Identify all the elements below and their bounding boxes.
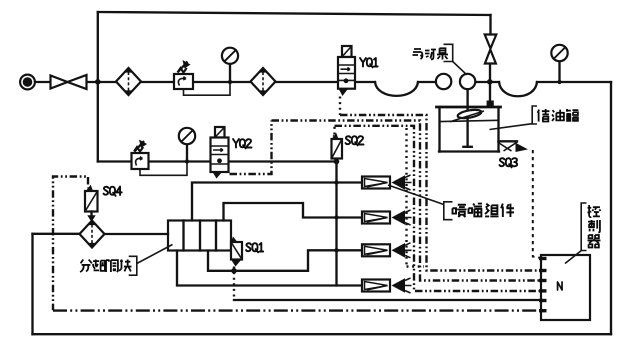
gauge G1 [222,48,238,82]
wire: feed to nozzle 2 [224,203,363,221]
wire: feed to nozzle 3 [208,250,362,270]
wire: feed to nozzle 4 [177,251,362,286]
regulator R1 [174,60,193,89]
label SQ4 [104,187,122,196]
node: junction row2 / feed column [334,159,340,165]
wire: hose loop 1 [375,82,418,96]
regulator R2 [132,140,149,170]
wire: nozzle feed column [335,162,337,286]
wire: pump suction pipe [466,89,468,147]
pilot line: SQ4 drop and bottom bus to controller [53,177,88,311]
wire: regulator R2 feedback [140,164,187,176]
label 储油罐 (oil tank) with bracket and leader [490,106,579,130]
node: junction row1 / gauge G3 [557,80,561,84]
wire: check-valve drop lower segment into tank [489,64,491,102]
node: junction SQ1 / nozzle3 loop [231,268,237,274]
pilot bus A: YQ1 to controller [340,115,540,271]
nozzle unit 1 [362,175,412,190]
wire: top bypass loop horizontal [98,12,491,15]
solenoid valve YQ2 [211,127,229,179]
wire: hose loop 2 [499,82,537,96]
label 控制器 (controller) vertical with bracket and leader [565,203,600,264]
nozzle unit 3 [362,243,412,258]
wire: regulator R1 feedback [184,84,231,95]
controller box [539,255,590,320]
limit valve SQ4 [85,185,98,222]
node: junction column / nozzle2 feed [334,215,338,219]
pump circle 2 [460,74,475,89]
pilot line: YQ1 drop [339,97,341,116]
node: junction row1 / left bypass [95,79,101,85]
inlet source port [20,75,35,90]
pilot line: YQ2 riser [230,121,272,175]
wire: main air line row 1 segments [35,81,51,83]
node: junction column / nozzle3 feed [334,248,338,252]
distribution valve block [168,221,231,251]
filter F1 [116,68,141,95]
pipe end plug into tank top [487,101,494,107]
node: junction row1 / check-valve line [487,79,493,85]
pilot line: SQ1 drop [233,267,235,301]
nozzle unit 2 [362,210,412,225]
wire: outer return bottom border [33,333,612,335]
gauge G2 [179,128,195,162]
pilot column D (inner spare) [407,128,425,267]
check valve (double cone) [485,35,497,64]
wire: check-valve drop upper segment [489,15,491,35]
label SQ2 [346,136,364,145]
solenoid valve YQ1 [338,46,355,96]
label 分配阀块 (distribution block) with bracket and leader [80,245,172,276]
label YQ1 [360,58,378,67]
filter F2 [251,68,276,95]
wire: feed to nozzle 1 [192,183,362,221]
label YQ2 [233,139,252,148]
wire: left bypass vertical down to row 2 [97,12,99,162]
pilot line: SQ3 drop to controller [533,150,540,258]
limit valve SQ1 [231,237,243,267]
wire: outer return left border [31,234,33,334]
label N (controller) [558,282,562,290]
filter F3 (lower) [80,221,105,248]
wire: outer return right border [610,82,612,334]
label 气动泵 (pneumatic pump) with bracket and leader [413,44,467,75]
oil tank [437,107,501,152]
label 喷嘴组件 (nozzle assembly) with bracket and leader [388,185,514,220]
pilot line: SQ2 riser [333,126,335,135]
node: junction row1 / gauge G1 [228,80,232,84]
node: junction row2 / gauge G2 [185,159,189,163]
pilot bus C: SQ2 to controller [335,126,541,291]
pump circle 1 [436,74,451,89]
shutoff valve (bowtie) [51,76,68,89]
wire: SQ1 signal line to controller [234,299,540,301]
level switch SQ3 [499,141,529,152]
wire: row 2 oil line segments [98,160,132,162]
pilot bus B: YQ2 to controller [272,121,541,281]
pressure switch SQ2 [332,133,343,159]
gauge G3 [551,45,567,82]
label SQ1 [246,243,263,252]
nozzle unit 4 [362,278,412,293]
node: junction column / nozzle1 feed [334,180,338,184]
wire: supply line to distribution block [33,233,80,235]
label SQ3 [500,158,518,167]
